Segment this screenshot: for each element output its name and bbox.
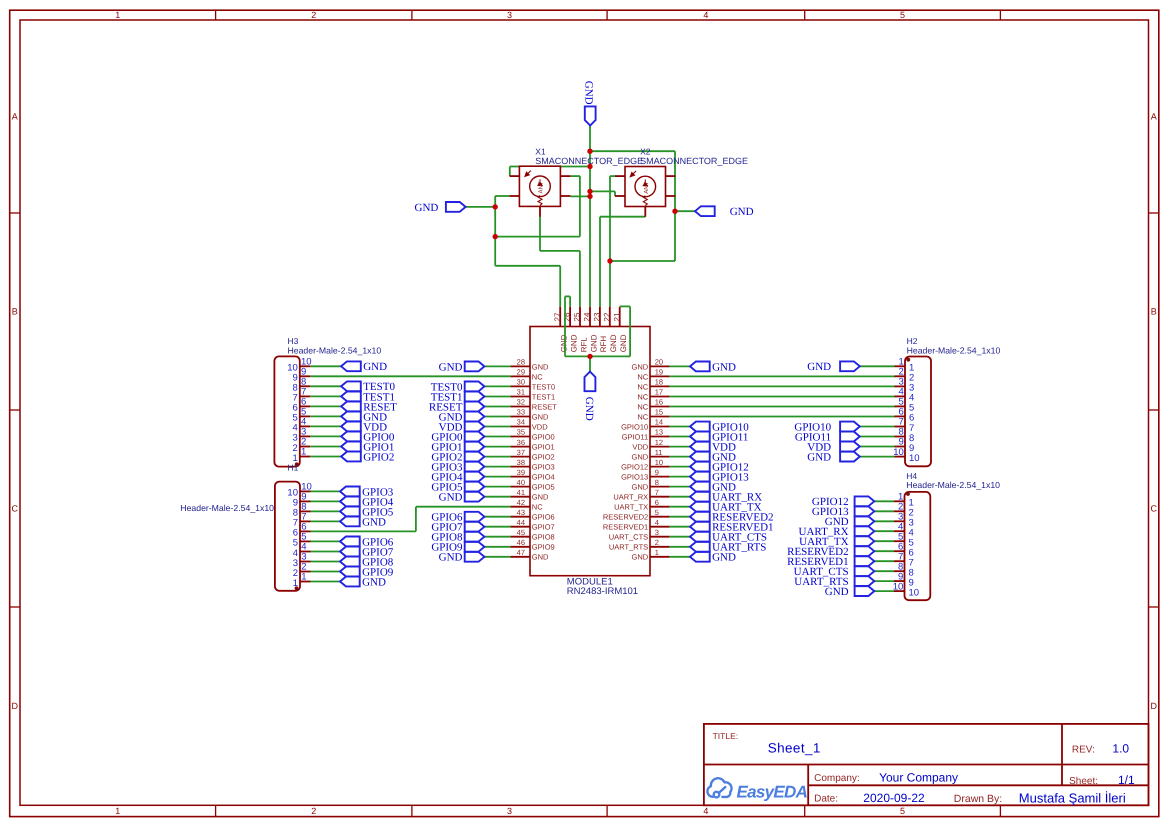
svg-text:GND: GND (439, 492, 463, 504)
svg-text:GND: GND (632, 362, 649, 371)
wire net GPIO2 to MODULE1 pin 37 (484, 456, 510, 458)
wire H1 pin 10 to net GPIO3 (311, 490, 341, 492)
svg-text:22: 22 (602, 312, 611, 321)
svg-text:GND: GND (532, 493, 549, 502)
MODULE1 pin 20 (GND) right stub (650, 365, 669, 367)
svg-text:16: 16 (655, 398, 663, 407)
svg-text:1/1: 1/1 (1118, 773, 1135, 787)
svg-text:H3: H3 (288, 336, 299, 346)
MODULE1 pin 40 (GPIO5) left stub (511, 486, 530, 488)
wire MODULE1 pin 16 to H2 pin 5 (669, 406, 895, 408)
wire to X2 left-top pin (610, 175, 615, 177)
MODULE1 pin 30 (TEST0) left stub (511, 385, 530, 387)
svg-text:33: 33 (517, 408, 525, 417)
MODULE1 pin 2 (UART_RTS) right stub (650, 546, 669, 548)
title block divider row2 (808, 784, 1148, 786)
svg-text:5: 5 (900, 806, 905, 816)
svg-text:Header-Male-2.54_1x10: Header-Male-2.54_1x10 (288, 345, 382, 355)
svg-text:2: 2 (655, 538, 659, 547)
svg-text:11: 11 (655, 448, 663, 457)
frame column tick top (999, 10, 1001, 20)
MODULE1 pin 16 (NC) right stub (650, 406, 669, 408)
connector X2 SMACONNECTOR_EDGE (615, 167, 676, 217)
svg-text:GND: GND (532, 362, 549, 371)
title block divider row1 (704, 764, 1149, 766)
wire net GPIO12 to H4 pin 1 (874, 500, 894, 502)
svg-text:Sheet:: Sheet: (1069, 776, 1098, 787)
IC MODULE1 RN2483-IRM101 body (530, 327, 650, 576)
frame row tick left (10, 212, 20, 214)
svg-text:GND: GND (569, 334, 578, 352)
svg-text:Date:: Date: (814, 794, 838, 805)
svg-text:3: 3 (507, 806, 512, 816)
svg-text:10: 10 (655, 458, 663, 467)
frame column tick bottom (999, 805, 1001, 816)
wire net UART_RTS to H4 pin 9 (874, 580, 894, 582)
net flag GPIO6 at H1 pin 5 (340, 536, 394, 548)
svg-text:GND: GND (807, 361, 831, 373)
MODULE1 pin 25 (RFL) top stub (579, 307, 581, 327)
wire net UART_RX from MODULE1 pin 7 (669, 496, 690, 498)
svg-text:REV:: REV: (1072, 745, 1095, 756)
svg-text:H1: H1 (288, 462, 299, 472)
svg-text:RESERVED2: RESERVED2 (603, 513, 648, 522)
net flag GND at MODULE1 pin 47 (439, 552, 485, 564)
svg-text:GPIO0: GPIO0 (532, 432, 555, 441)
svg-text:14: 14 (655, 418, 663, 427)
svg-text:X1: X1 (535, 146, 546, 156)
svg-text:6: 6 (655, 498, 659, 507)
wire H1 pin 4 to net GPIO7 (311, 551, 341, 553)
MODULE1 pin 9 (GPIO13) right stub (650, 476, 669, 478)
wire to right GND flag (675, 210, 695, 212)
net flag GPIO1 at MODULE1 pin 36 (431, 442, 484, 454)
junction at GND vertical / X1 right-bottom wire (587, 194, 592, 199)
net flag GPIO2 at H3 pin 1 (341, 451, 394, 463)
net flag GPIO0 at H3 pin 3 (341, 431, 395, 443)
MODULE1 pin 22 (GND) top stub (609, 307, 611, 327)
MODULE1 pin 21 (GND) top stub (619, 307, 621, 327)
svg-text:21: 21 (612, 312, 621, 321)
net flag UART_RTS at H4 pin 9 (794, 576, 874, 588)
svg-text:GND: GND (560, 334, 569, 352)
net flag RESERVED2 at MODULE1 pin 5 (690, 512, 774, 524)
wire H1 pin 3 to net GPIO8 (311, 561, 341, 563)
wire X2 shield right vertical (674, 151, 676, 261)
svg-text:31: 31 (517, 388, 525, 397)
MODULE1 pin 12 (VDD) right stub (650, 446, 669, 448)
svg-text:2: 2 (311, 806, 316, 816)
svg-text:Drawn By:: Drawn By: (954, 793, 1002, 805)
net flag GND at MODULE1 pin 11 (690, 452, 736, 464)
svg-text:46: 46 (517, 538, 525, 547)
svg-text:GND: GND (439, 552, 463, 564)
wire net TEST1 to MODULE1 pin 31 (484, 396, 510, 398)
svg-text:41: 41 (517, 488, 525, 497)
svg-text:NC: NC (637, 392, 648, 401)
svg-text:25: 25 (573, 312, 582, 321)
svg-text:TEST0: TEST0 (532, 382, 555, 391)
wire down to MODULE1 pin 25 (RFL) (579, 251, 581, 307)
svg-text:47: 47 (517, 548, 525, 557)
net flag GPIO0 at MODULE1 pin 35 (431, 431, 484, 443)
svg-text:GND: GND (730, 206, 754, 218)
svg-text:30: 30 (517, 378, 525, 387)
svg-text:GND: GND (619, 334, 628, 352)
net flag GPIO3 at H1 pin 10 (340, 486, 394, 498)
svg-text:37: 37 (517, 448, 525, 457)
wire net GPIO0 to MODULE1 pin 35 (484, 436, 510, 438)
wire H3 pin 8 to net TEST0 (310, 385, 341, 387)
net flag GND at MODULE1 pin 41 (439, 492, 485, 504)
wire net GPIO7 to MODULE1 pin 44 (484, 526, 510, 528)
wire net GND to MODULE1 pin 41 (484, 496, 510, 498)
wire net GPIO1 to MODULE1 pin 36 (484, 446, 510, 448)
svg-text:1: 1 (115, 10, 120, 20)
svg-text:NC: NC (532, 503, 543, 512)
junction at X1 shield horizontal (493, 234, 498, 239)
frame column tick top (411, 10, 413, 20)
junction at X2 shield bottom (607, 258, 612, 263)
net flag VDD at MODULE1 pin 12 (690, 442, 736, 454)
wire net UART_RTS from MODULE1 pin 2 (669, 546, 690, 548)
wire net GPIO11 to H2 pin 8 (860, 436, 895, 438)
wire net GPIO6 to MODULE1 pin 43 (484, 516, 510, 518)
wire net GPIO13 to H4 pin 2 (874, 510, 894, 512)
net flag RESET at H3 pin 6 (341, 401, 397, 413)
svg-text:44: 44 (517, 518, 525, 527)
wire net RESERVED2 to H4 pin 6 (874, 550, 894, 552)
svg-text:NC: NC (637, 372, 648, 381)
svg-text:NC: NC (637, 382, 648, 391)
wire GND vertical center to MODULE1 pin 24 (589, 126, 591, 307)
net flag GPIO9 at H1 pin 2 (340, 566, 394, 578)
MODULE1 pin 15 (NC) right stub (650, 416, 669, 418)
svg-text:RN2483-IRM101: RN2483-IRM101 (567, 586, 638, 597)
svg-text:SMACONNECTOR_EDGE: SMACONNECTOR_EDGE (640, 156, 748, 166)
svg-text:GND: GND (532, 412, 549, 421)
svg-text:3: 3 (507, 10, 512, 20)
wire net UART_TX to H4 pin 5 (874, 540, 894, 542)
MODULE1 pin 34 (VDD) left stub (511, 426, 530, 428)
svg-text:4: 4 (703, 10, 708, 20)
svg-text:UART_TX: UART_TX (614, 503, 648, 512)
svg-text:RFL: RFL (579, 337, 588, 353)
net flag TEST0 at H3 pin 8 (341, 381, 395, 393)
svg-text:NC: NC (637, 402, 648, 411)
wire net GND to H4 pin 3 (874, 520, 894, 522)
net flag GND at H4 pin 10 (825, 586, 875, 598)
MODULE1 pin 39 (GPIO4) left stub (511, 476, 530, 478)
MODULE1 pin 35 (GPIO0) left stub (511, 436, 530, 438)
svg-text:GPIO8: GPIO8 (532, 533, 555, 542)
net flag GPIO10 at MODULE1 pin 14 (690, 421, 749, 433)
svg-text:B: B (12, 307, 18, 317)
svg-text:TEST1: TEST1 (532, 392, 555, 401)
wire net GPIO9 to MODULE1 pin 46 (484, 546, 510, 548)
svg-text:TITLE:: TITLE: (713, 731, 739, 741)
net flag GPIO8 at H1 pin 3 (340, 556, 394, 568)
MODULE1 pin 26 (GND) top stub (569, 307, 571, 327)
wire X1 right pins vertical (579, 176, 581, 237)
svg-text:1: 1 (115, 806, 120, 816)
svg-text:C: C (12, 504, 19, 514)
MODULE1 pin 24 (GND) top stub (589, 307, 591, 327)
wire net GPIO13 from MODULE1 pin 9 (669, 476, 690, 478)
wire H1 pin 6 horizontal (310, 530, 416, 532)
wire net GND from MODULE1 pin 11 (669, 456, 690, 458)
svg-text:A: A (1151, 112, 1157, 122)
wire pin 26 riser (569, 296, 571, 306)
svg-text:GND: GND (825, 586, 849, 598)
svg-text:RESERVED1: RESERVED1 (603, 523, 648, 532)
wire H3 pin 7 to net TEST1 (310, 395, 341, 397)
wire net VDD from MODULE1 pin 12 (669, 446, 690, 448)
svg-text:VDD: VDD (532, 422, 548, 431)
frame column tick top (804, 10, 806, 20)
svg-text:36: 36 (517, 438, 525, 447)
svg-text:7: 7 (655, 488, 659, 497)
frame row tick left (10, 606, 20, 608)
wire to inner GND flag (589, 356, 591, 371)
MODULE1 pin 29 (NC) left stub (511, 375, 530, 377)
svg-text:B: B (1151, 307, 1157, 317)
svg-text:EasyEDA: EasyEDA (737, 783, 808, 802)
svg-text:GND: GND (439, 361, 463, 373)
wire down to MODULE1 pin 23 (RFH) (599, 217, 601, 307)
net flag GPIO10 at H2 pin 7 (794, 421, 859, 433)
svg-text:28: 28 (517, 358, 525, 367)
wire X2 shield bottom horizontal (610, 260, 675, 262)
MODULE1 pin 14 (GPIO10) right stub (650, 426, 669, 428)
svg-text:20: 20 (655, 358, 663, 367)
svg-text:5: 5 (655, 508, 659, 517)
svg-text:C: C (1150, 504, 1157, 514)
svg-text:1: 1 (301, 447, 306, 458)
net flag GND at H2 pin 10 (807, 452, 860, 464)
svg-text:34: 34 (517, 418, 525, 427)
svg-text:GPIO10: GPIO10 (621, 422, 648, 431)
wire net UART_CTS from MODULE1 pin 3 (669, 536, 690, 538)
junction at left GND flag wire (493, 204, 498, 209)
wire to left GND flag (466, 206, 496, 208)
frame row tick right (1149, 212, 1159, 214)
net flag UART_CTS at MODULE1 pin 3 (690, 532, 767, 544)
wire H3 pin 2 to net GPIO1 (310, 446, 341, 448)
svg-text:D: D (12, 701, 19, 711)
svg-text:GND: GND (415, 202, 439, 214)
MODULE1 pin 13 (GPIO11) right stub (650, 436, 669, 438)
svg-text:GND: GND (362, 516, 386, 528)
wire H3 pin 9 to MODULE1 pin 29 (310, 375, 510, 377)
MODULE1 pin 27 (GND) top stub (559, 307, 561, 327)
wire X2 shield left vertical (609, 176, 611, 261)
wire net RESERVED2 from MODULE1 pin 5 (669, 516, 690, 518)
MODULE1 pin 47 (GND) left stub (511, 556, 530, 558)
wire X1 shield horizontal y236 (495, 236, 580, 238)
wire H3 pin 6 to net RESET (310, 405, 341, 407)
wire to X2 left-bottom pin horizontal (590, 190, 615, 192)
wire pin 26 jog (565, 295, 570, 297)
net flag GPIO4 at H1 pin 9 (340, 496, 394, 508)
wire net UART_TX from MODULE1 pin 6 (669, 506, 690, 508)
wire X1 shield bottom horizontal (495, 265, 560, 267)
svg-text:GPIO1: GPIO1 (532, 443, 555, 452)
net flag RESERVED1 at MODULE1 pin 4 (690, 522, 774, 534)
svg-text:19: 19 (655, 368, 663, 377)
net flag GPIO11 at H2 pin 8 (795, 431, 860, 443)
wire net UART_CTS to H4 pin 8 (874, 570, 894, 572)
connector H2 Header-Male-2.54_1x10 (893, 357, 931, 467)
wire X1 left-bottom pin horizontal (495, 195, 509, 197)
net flag GND at H1 pin 7 (340, 516, 386, 528)
svg-text:GPIO12: GPIO12 (621, 463, 648, 472)
svg-text:A: A (12, 112, 18, 122)
svg-text:GPIO11: GPIO11 (622, 432, 649, 441)
MODULE1 pin 17 (NC) right stub (650, 396, 669, 398)
frame column tick bottom (606, 805, 608, 816)
wire net VDD to H2 pin 9 (860, 446, 895, 448)
frame column tick top (606, 10, 608, 20)
svg-text:UART_RX: UART_RX (613, 493, 648, 502)
wire H1 pin 2 to net GPIO9 (311, 571, 341, 573)
MODULE1 pin 44 (GPIO7) left stub (511, 526, 530, 528)
wire net GPIO10 to H2 pin 7 (860, 426, 895, 428)
svg-text:38: 38 (517, 458, 525, 467)
net flag VDD at MODULE1 pin 34 (439, 421, 485, 433)
net flag RESET at MODULE1 pin 32 (429, 401, 485, 413)
svg-text:Your Company: Your Company (879, 771, 958, 785)
svg-text:GND: GND (632, 553, 649, 562)
ground flag GND right of X2 (695, 206, 754, 218)
wire X2 ANT horizontal (600, 216, 645, 218)
net flag TEST0 at MODULE1 pin 30 (431, 381, 485, 393)
wire X1 right-top pin horizontal (570, 175, 580, 177)
svg-text:GND: GND (362, 576, 386, 588)
svg-text:29: 29 (517, 368, 525, 377)
svg-text:X2: X2 (640, 146, 651, 156)
svg-text:10: 10 (893, 581, 904, 592)
connector H3 Header-Male-2.54_1x10 (274, 356, 311, 466)
svg-text:UART_RTS: UART_RTS (609, 543, 648, 552)
wire net GND from MODULE1 pin 8 (669, 486, 690, 488)
net flag UART_RTS at MODULE1 pin 2 (690, 542, 766, 554)
net flag VDD at H3 pin 4 (341, 421, 387, 433)
MODULE1 pin 38 (GPIO3) left stub (511, 466, 530, 468)
net flag VDD at H2 pin 9 (807, 441, 860, 453)
svg-text:Header-Male-2.54_1x10: Header-Male-2.54_1x10 (907, 345, 1001, 355)
net flag GPIO11 at MODULE1 pin 13 (690, 431, 748, 443)
svg-text:GPIO5: GPIO5 (532, 483, 555, 492)
wire X1 left-top pin elbow vertical (509, 167, 511, 177)
svg-text:GND: GND (583, 397, 595, 421)
MODULE1 pin 19 (NC) right stub (650, 375, 669, 377)
MODULE1 pin 28 (GND) left stub (511, 365, 530, 367)
frame column tick bottom (411, 805, 413, 816)
wire down to MODULE1 pin 22 (609, 261, 611, 307)
MODULE1 pin 8 (GND) right stub (650, 486, 669, 488)
net flag GND at MODULE1 pin 1 (690, 552, 736, 564)
wire net GPIO11 from MODULE1 pin 13 (669, 436, 690, 438)
svg-text:10: 10 (909, 587, 920, 598)
svg-text:GPIO9: GPIO9 (532, 543, 555, 552)
svg-text:2: 2 (311, 10, 316, 20)
svg-text:24: 24 (583, 312, 592, 321)
svg-text:VDD: VDD (632, 443, 648, 452)
net flag GND at H4 pin 3 (825, 516, 875, 528)
svg-text:NC: NC (532, 372, 543, 381)
wire pin 26 down into module (564, 296, 566, 356)
svg-text:GND: GND (363, 361, 387, 373)
MODULE1 pin 41 (GND) left stub (511, 496, 530, 498)
svg-text:UART_CTS: UART_CTS (609, 533, 648, 542)
frame column tick top (215, 10, 217, 20)
svg-text:2020-09-22: 2020-09-22 (863, 791, 925, 805)
connector X1 SMACONNECTOR_EDGE (510, 166, 571, 217)
wire net GPIO3 to MODULE1 pin 38 (484, 466, 510, 468)
net flag RESERVED2 at H4 pin 6 (787, 546, 874, 558)
svg-text:26: 26 (563, 312, 572, 321)
wire pin 21 down into module (629, 306, 631, 356)
svg-text:1: 1 (293, 578, 298, 589)
svg-text:1: 1 (301, 572, 306, 583)
wire down to MODULE1 pin 27 (559, 266, 561, 307)
svg-text:9: 9 (655, 468, 659, 477)
net flag GPIO8 at MODULE1 pin 45 (431, 532, 484, 544)
svg-text:GND: GND (583, 81, 595, 105)
MODULE1 pin 11 (GND) right stub (650, 456, 669, 458)
net flag GPIO6 at MODULE1 pin 43 (431, 512, 484, 524)
net flag UART_RX at H4 pin 4 (799, 526, 875, 538)
wire H1 pin 6 vertical (415, 507, 417, 532)
wire to X2 left-bottom pin jog (614, 191, 616, 196)
wire net GND from MODULE1 pin 20 (669, 365, 690, 367)
MODULE1 pin 31 (TEST1) left stub (511, 396, 530, 398)
svg-text:3: 3 (655, 528, 659, 537)
wire H1 pin 8 to net GPIO5 (311, 510, 341, 512)
svg-text:39: 39 (517, 468, 525, 477)
frame row tick right (1149, 409, 1159, 411)
svg-text:GND: GND (632, 453, 649, 462)
svg-text:45: 45 (517, 528, 525, 537)
wire H3 pin 10 to net GND (310, 365, 341, 367)
wire H1 pin 6 to MODULE1 pin 42 (416, 506, 511, 508)
MODULE1 pin 33 (GND) left stub (511, 416, 530, 418)
svg-text:5: 5 (900, 10, 905, 20)
svg-text:18: 18 (655, 378, 663, 387)
svg-text:12: 12 (655, 438, 663, 447)
MODULE1 pin 4 (RESERVED1) right stub (650, 526, 669, 528)
junction at GND vertical / X2 left-bottom wire (587, 189, 592, 194)
frame column tick bottom (804, 805, 806, 816)
wire net VDD to MODULE1 pin 34 (484, 426, 510, 428)
wire H1 pin 9 to net GPIO4 (311, 500, 341, 502)
net flag GPIO12 at H4 pin 1 (812, 496, 874, 508)
wire H1 pin 1 to net GND (311, 581, 341, 583)
svg-text:RESET: RESET (532, 402, 557, 411)
EasyEDA logo cloud (707, 778, 731, 797)
MODULE1 pin 1 (GND) right stub (650, 556, 669, 558)
net flag RESERVED1 at H4 pin 7 (787, 556, 874, 568)
wire MODULE1 pin 18 to H2 pin 3 (669, 385, 895, 387)
net flag TEST1 at MODULE1 pin 31 (431, 391, 485, 403)
MODULE1 pin 18 (NC) right stub (650, 385, 669, 387)
wire H3 pin 1 to net GPIO2 (310, 456, 341, 458)
MODULE1 pin 46 (GPIO9) left stub (511, 546, 530, 548)
MODULE1 pin 10 (GPIO12) right stub (650, 466, 669, 468)
frame column tick bottom (215, 805, 217, 816)
MODULE1 pin 6 (UART_TX) right stub (650, 506, 669, 508)
